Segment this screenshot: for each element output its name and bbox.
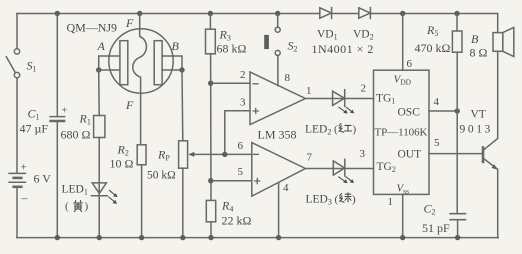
- wire OSC pin 4: [429, 110, 457, 112]
- wire R3 to R4 divider column: [210, 54, 212, 201]
- label (yellow): [65, 201, 89, 213]
- resistor R5 470k: [452, 31, 462, 52]
- node junction bottom rail R2: [139, 235, 144, 240]
- svg-text:(: (: [335, 194, 339, 206]
- node junction top rail C1: [55, 11, 60, 16]
- svg-text:+: +: [21, 162, 27, 174]
- svg-text:F: F: [125, 98, 134, 112]
- node junction top rail S2: [275, 11, 280, 16]
- svg-text:1: 1: [388, 196, 394, 208]
- svg-text:1N4001 × 2: 1N4001 × 2: [312, 42, 374, 56]
- svg-text:6: 6: [407, 58, 413, 70]
- switch S1: [6, 49, 19, 78]
- node junction divider to pin5: [208, 178, 213, 183]
- wire A node to R1: [98, 70, 101, 116]
- svg-text:3: 3: [360, 148, 366, 160]
- svg-text:68 kΩ: 68 kΩ: [217, 42, 247, 56]
- svg-text:F: F: [125, 16, 134, 30]
- svg-text:OSC: OSC: [398, 107, 421, 119]
- svg-text:): ): [353, 124, 357, 136]
- node junction bottom rail LED1: [97, 235, 102, 240]
- svg-text:51 pF: 51 pF: [422, 221, 450, 235]
- svg-text:A: A: [97, 39, 106, 53]
- resistor R3 68k: [206, 29, 216, 54]
- wire bottom ground rail: [17, 237, 498, 239]
- svg-text:–: –: [21, 191, 29, 205]
- node junction top rail R3: [208, 11, 213, 16]
- battery GB 6V: [8, 173, 26, 186]
- node junction pin3-pin6: [222, 152, 227, 157]
- wire R2 to bottom rail: [141, 165, 143, 238]
- svg-text:3: 3: [240, 97, 246, 109]
- wire B node to RP: [181, 70, 184, 141]
- op-amp U1A LM358: [250, 72, 305, 125]
- pushbutton S2: [264, 14, 280, 56]
- wire VSS pin 1 to ground: [402, 194, 404, 237]
- sensor electrode A plate: [120, 41, 128, 85]
- node junction bottom rail C2: [455, 235, 460, 240]
- node junction bottom rail pin1: [400, 235, 405, 240]
- svg-text:VT: VT: [471, 109, 486, 121]
- wire C2 to bottom rail: [457, 221, 459, 238]
- wire speaker to VT collector: [484, 51, 498, 150]
- LED2 red: [333, 90, 355, 114]
- resistor R1 680 ohm: [94, 116, 105, 138]
- svg-text:OUT: OUT: [398, 149, 422, 161]
- node junction top rail VDD: [400, 11, 405, 16]
- resistor R2 10 ohm: [137, 145, 146, 165]
- speaker B 8 ohm: [493, 27, 514, 56]
- potentiometer RP 50k: [179, 141, 225, 168]
- svg-text:50 kΩ: 50 kΩ: [147, 170, 176, 182]
- svg-text:): ): [352, 194, 356, 206]
- svg-text:9013: 9013: [460, 124, 493, 136]
- op-amp U1B LM358: [252, 143, 306, 197]
- wire battery to bottom rail: [16, 188, 18, 238]
- svg-text:+: +: [62, 106, 68, 117]
- node junction top rail R5: [454, 11, 459, 16]
- label LED2 (red): [305, 124, 357, 137]
- svg-text:QM—NJ9: QM—NJ9: [67, 20, 118, 34]
- node junction bottom rail pin4: [276, 235, 281, 240]
- svg-text:8: 8: [285, 72, 291, 84]
- svg-text:(: (: [65, 201, 69, 213]
- svg-text:B: B: [172, 39, 180, 53]
- wire op-amp pin 3 branch: [225, 111, 250, 155]
- wire op-amp pin 8 to S2: [277, 55, 279, 85]
- svg-text:): ): [85, 201, 89, 213]
- node junction bottom rail RP: [180, 235, 185, 240]
- node junction bottom rail R4: [208, 235, 213, 240]
- transistor VT 9013: [483, 146, 498, 237]
- svg-text:LM 358: LM 358: [258, 128, 297, 142]
- diode VD1 1N4001: [320, 8, 332, 19]
- node junction top rail sensor F: [137, 11, 142, 16]
- svg-text:7: 7: [307, 152, 313, 164]
- wire op-amp pin 4 to ground: [278, 182, 280, 237]
- diode VD2 1N4001: [359, 8, 371, 19]
- node junction pin4 R5 C2: [455, 108, 460, 113]
- svg-text:6: 6: [238, 140, 244, 152]
- wire op-amp2 output to TG2: [305, 168, 373, 170]
- wire S1 to battery: [16, 78, 18, 173]
- svg-text:2: 2: [361, 83, 367, 95]
- LED3 green: [333, 159, 354, 183]
- LED1 diode symbol: [91, 183, 117, 204]
- wire R5 to C2 column: [456, 52, 458, 213]
- svg-text:5: 5: [434, 137, 440, 149]
- wire electrode B leads: [162, 56, 182, 70]
- resistor R4 22k: [206, 200, 215, 221]
- wire RP to bottom rail: [182, 168, 184, 237]
- wire wiper to op-amp pin 6: [225, 153, 252, 155]
- capacitor C2 51pF: [449, 214, 466, 220]
- svg-text:5: 5: [238, 166, 244, 178]
- wire rail to R3: [209, 14, 211, 30]
- wire top supply rail: [17, 13, 498, 15]
- svg-text:4: 4: [283, 182, 289, 194]
- label LED3 (green): [306, 193, 357, 207]
- svg-text:(: (: [334, 124, 338, 136]
- sensor electrode B plate: [154, 41, 162, 85]
- svg-text:4: 4: [434, 96, 440, 108]
- svg-text:680 Ω: 680 Ω: [61, 128, 91, 142]
- wire R4 to bottom rail: [210, 222, 212, 238]
- svg-text:6 V: 6 V: [34, 172, 52, 186]
- wire R1 to LED1 to bottom rail: [98, 138, 100, 238]
- svg-text:470 kΩ: 470 kΩ: [415, 41, 451, 55]
- wire divider to op-amp pin 5: [211, 180, 252, 182]
- node junction divider to pin2: [208, 81, 213, 86]
- wire left branch upper (rail to S1): [16, 14, 18, 49]
- wire C1 to bottom rail: [56, 122, 58, 237]
- svg-text:22 kΩ: 22 kΩ: [222, 214, 252, 228]
- svg-text:10 Ω: 10 Ω: [110, 157, 134, 171]
- wire rail to R5: [456, 14, 458, 32]
- node junction electrode A: [96, 67, 101, 72]
- wire op-amp1 output to TG1: [305, 98, 373, 100]
- wire C1 column upper: [56, 14, 58, 117]
- wire divider to op-amp pin 2: [211, 82, 250, 84]
- svg-text:8 Ω: 8 Ω: [470, 46, 488, 60]
- gas sensor QM-NJ9 body: [109, 29, 173, 93]
- sensor heater filament and F-F wire: [133, 14, 147, 145]
- node junction electrode B: [179, 67, 184, 72]
- svg-text:47 µF: 47 µF: [20, 122, 49, 136]
- wire electrode A leads: [99, 56, 120, 70]
- wire rail corner to speaker: [497, 14, 499, 33]
- node junction bottom rail C1: [55, 235, 60, 240]
- capacitor C1 47uF: [49, 106, 67, 122]
- wire OUT pin 5 to VT base: [429, 153, 483, 155]
- wire rail to VDD pin 6: [402, 14, 404, 71]
- IC U2 TP-1106K: [374, 70, 430, 194]
- svg-text:1: 1: [306, 85, 312, 97]
- svg-text:B: B: [471, 32, 479, 46]
- svg-text:TP—1106K: TP—1106K: [375, 127, 428, 139]
- svg-text:2: 2: [240, 69, 246, 81]
